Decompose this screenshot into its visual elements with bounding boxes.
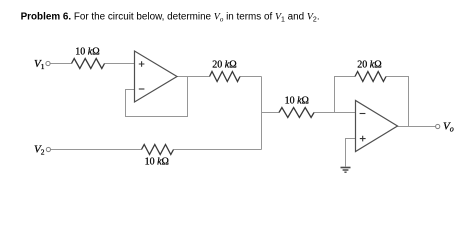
svg-text:Vo: Vo [443,121,454,134]
svg-text:10 kΩ: 10 kΩ [75,47,99,58]
svg-text:V1: V1 [34,58,45,71]
svg-text:10 kΩ: 10 kΩ [145,157,169,168]
svg-text:20 kΩ: 20 kΩ [357,59,381,70]
svg-text:10 kΩ: 10 kΩ [285,95,309,106]
svg-text:V2: V2 [34,144,45,157]
svg-text:Problem 6. For the circuit bel: Problem 6. For the circuit below, determ… [21,12,320,24]
svg-text:20 kΩ: 20 kΩ [212,59,236,70]
